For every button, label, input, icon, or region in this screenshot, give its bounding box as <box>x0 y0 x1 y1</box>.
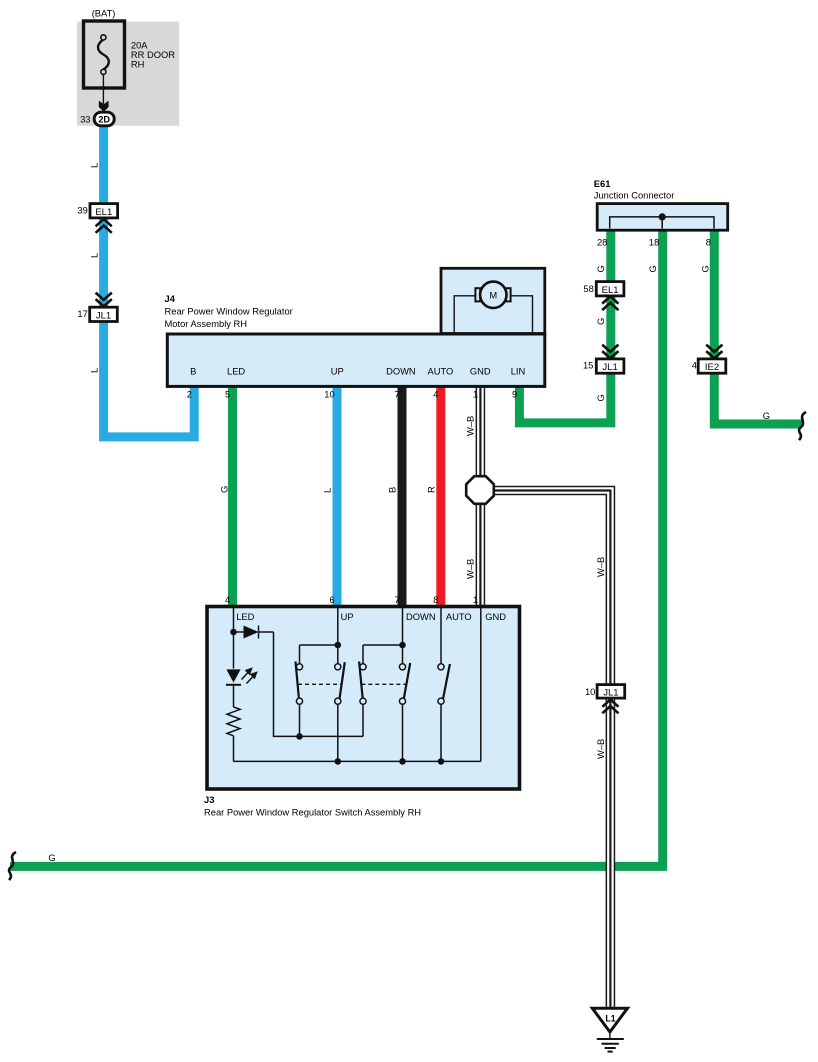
svg-text:DOWN: DOWN <box>406 612 436 622</box>
svg-text:6: 6 <box>329 595 334 605</box>
svg-text:58: 58 <box>583 284 593 294</box>
ground symbol L1 <box>592 1008 627 1051</box>
ground bus <box>234 760 481 762</box>
J4 motor assembly box <box>167 334 545 386</box>
arrowhead into 2D <box>99 101 109 112</box>
svg-text:G: G <box>700 265 710 272</box>
svg-text:2D: 2D <box>98 114 110 124</box>
chevrons above JL1 15 (pointing down) <box>602 345 618 359</box>
wire L blue: 2D down through EL1/JL1 to J4 pin B <box>104 125 195 437</box>
svg-text:GND: GND <box>485 612 506 622</box>
wire fuse to connector 2D <box>102 74 104 105</box>
connector 33 2D <box>94 112 114 126</box>
svg-text:G: G <box>648 265 658 272</box>
wire W-B: junction right branch down to ground L1 <box>481 491 610 1007</box>
DOWN feed wire <box>363 607 403 663</box>
UP feed wire <box>300 607 338 663</box>
switch contact circles <box>296 664 444 705</box>
svg-text:4: 4 <box>225 595 230 605</box>
svg-text:39: 39 <box>77 205 87 215</box>
svg-text:Junction Connector: Junction Connector <box>594 191 675 201</box>
svg-text:EL1: EL1 <box>602 285 619 296</box>
svg-text:W–B: W–B <box>596 739 606 759</box>
svg-text:L: L <box>323 488 333 493</box>
LED emission arrows <box>242 669 257 684</box>
wire R red: J4 AUTO pin to J3 AUTO pin <box>436 385 445 607</box>
E61 bus dot <box>659 213 666 220</box>
svg-text:8: 8 <box>433 595 438 605</box>
chevrons below EL1 58 (pointing up) <box>602 296 618 310</box>
svg-text:G: G <box>48 853 55 863</box>
svg-text:1: 1 <box>473 390 478 400</box>
right continuation squiggle <box>799 412 806 440</box>
switch lower stubs <box>300 705 442 762</box>
svg-text:G: G <box>596 265 606 272</box>
wire L blue: J4 UP pin to J3 UP pin <box>333 385 342 607</box>
svg-text:UP: UP <box>331 367 344 377</box>
LED cathode bar <box>226 684 241 686</box>
svg-text:JL1: JL1 <box>603 687 618 698</box>
chevrons above JL1 17 (pointing down) <box>96 293 112 307</box>
svg-text:LIN: LIN <box>511 367 526 377</box>
chevrons below JL1 10 (pointing up) <box>602 700 618 714</box>
switch blades <box>296 662 300 700</box>
svg-text:IE2: IE2 <box>705 362 719 373</box>
svg-text:8: 8 <box>706 237 711 247</box>
J3 internal circuit <box>226 607 481 761</box>
svg-text:W–B: W–B <box>466 416 476 436</box>
fuse 20A RR DOOR RH <box>84 21 176 88</box>
svg-text:4: 4 <box>692 361 697 371</box>
wire G green: E61 pin 18 down and left to page edge <box>10 228 663 866</box>
E61 internal bus <box>610 217 714 229</box>
svg-text:10: 10 <box>324 390 334 400</box>
internal diode <box>259 626 274 639</box>
svg-text:1: 1 <box>473 595 478 605</box>
svg-text:G: G <box>596 394 606 401</box>
svg-text:5: 5 <box>225 390 230 400</box>
svg-text:J4: J4 <box>165 294 176 304</box>
connector 17 JL1 <box>90 307 118 321</box>
motor brush leads <box>454 296 532 333</box>
svg-text:4: 4 <box>433 390 438 400</box>
LED triangle <box>226 669 240 682</box>
svg-text:G: G <box>220 486 230 493</box>
svg-text:G: G <box>763 411 770 421</box>
LED feed wire <box>234 607 244 632</box>
junction dots in J3 <box>230 629 444 765</box>
svg-text:LED: LED <box>236 612 254 622</box>
svg-text:B: B <box>190 367 196 377</box>
GND feed wire <box>480 607 482 761</box>
svg-text:GND: GND <box>470 367 491 377</box>
svg-text:7: 7 <box>394 390 399 400</box>
svg-text:JL1: JL1 <box>602 362 617 373</box>
connector 15 JL1 <box>596 359 624 373</box>
svg-text:Rear Power Window Regulator: Rear Power Window Regulator <box>165 306 293 316</box>
internal diode triangle <box>244 626 259 639</box>
chevrons above IE2 4 (pointing down) <box>706 345 722 359</box>
svg-text:Motor Assembly RH: Motor Assembly RH <box>165 319 248 329</box>
resistor to ground bus <box>233 736 235 762</box>
AUTO feed wire <box>440 607 442 663</box>
svg-text:Rear Power Window Regulator Sw: Rear Power Window Regulator Switch Assem… <box>204 807 421 817</box>
connector 39 EL1 <box>90 204 118 218</box>
svg-text:2: 2 <box>187 390 192 400</box>
chevrons below EL1 39 (pointing up) <box>96 219 112 233</box>
svg-text:B: B <box>388 487 398 493</box>
mechanical link dashed <box>298 683 407 685</box>
svg-text:G: G <box>596 318 606 325</box>
svg-text:L: L <box>89 163 99 168</box>
svg-text:AUTO: AUTO <box>428 367 454 377</box>
connector 10 JL1 <box>597 685 625 699</box>
svg-text:(BAT): (BAT) <box>92 8 116 18</box>
wire G green: J4 LIN pin up to E61 pin 28 via EL1/JL1 <box>519 228 610 423</box>
svg-text:R: R <box>426 486 436 493</box>
svg-text:DOWN: DOWN <box>386 367 416 377</box>
svg-text:E61: E61 <box>594 179 611 189</box>
svg-text:L: L <box>89 253 99 258</box>
svg-text:W–B: W–B <box>466 559 476 579</box>
svg-text:L: L <box>89 368 99 373</box>
svg-text:33: 33 <box>80 114 90 124</box>
svg-text:W–B: W–B <box>596 557 606 577</box>
left continuation squiggle <box>9 852 16 880</box>
svg-text:JL1: JL1 <box>96 311 111 322</box>
svg-text:18: 18 <box>649 237 659 247</box>
svg-text:17: 17 <box>77 309 87 319</box>
svg-text:L1: L1 <box>605 1013 615 1023</box>
diode to switch A lower wire <box>274 632 364 736</box>
resistor <box>227 707 240 736</box>
connector 4 IE2 <box>698 359 726 373</box>
wire B black: J4 DOWN pin to J3 DOWN pin <box>398 385 407 607</box>
connector 58 EL1 <box>596 282 624 296</box>
svg-text:28: 28 <box>597 237 607 247</box>
LED column wire <box>233 632 235 707</box>
wire G green: E61 pin 8 down through IE2 to right page edge <box>714 228 802 424</box>
motor housing box <box>441 268 545 333</box>
svg-text:UP: UP <box>341 612 354 622</box>
E61 junction connector box <box>597 204 728 231</box>
svg-text:LED: LED <box>227 367 245 377</box>
svg-text:10: 10 <box>585 687 595 697</box>
svg-text:M: M <box>489 291 497 301</box>
svg-text:7: 7 <box>394 595 399 605</box>
splice junction octagon <box>466 476 494 504</box>
svg-text:J3: J3 <box>204 795 214 805</box>
svg-text:15: 15 <box>583 361 593 371</box>
svg-text:EL1: EL1 <box>95 207 112 218</box>
motor M circle <box>480 282 506 308</box>
wire W-B: J4 GND pin down through junction to J3 GND pin <box>476 385 486 607</box>
wire G green: J4 LED pin to J3 LED pin <box>228 385 237 607</box>
svg-text:9: 9 <box>512 390 517 400</box>
power source block (gray) <box>77 22 179 126</box>
svg-text:AUTO: AUTO <box>446 612 472 622</box>
motor brushes <box>475 288 480 301</box>
J3 switch assembly box <box>207 607 520 790</box>
